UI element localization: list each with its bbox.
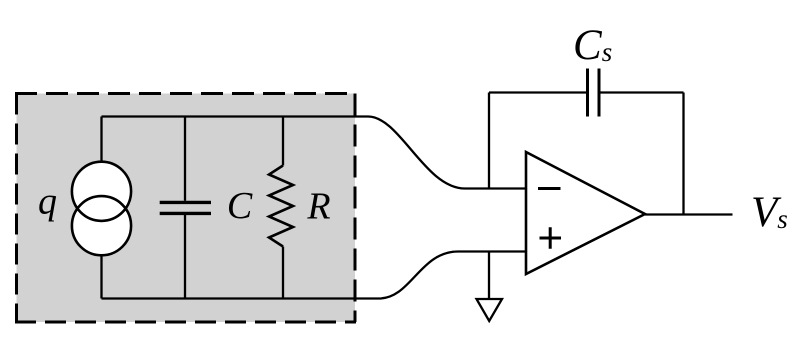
wire feedback right leg (682, 93, 684, 215)
ground (477, 252, 503, 322)
capacitor Cs (588, 69, 600, 117)
op-amp U1 (526, 152, 645, 274)
wire feedback top right (599, 91, 684, 93)
wire feedback left leg (488, 93, 490, 189)
svg-text:Vs: Vs (751, 189, 788, 236)
svg-text:Cs: Cs (573, 22, 612, 69)
svg-text:R: R (306, 186, 330, 228)
capacitor C (160, 117, 211, 299)
svg-text:C: C (227, 185, 253, 227)
resistor R (269, 117, 293, 299)
wire output (645, 213, 733, 215)
dashed sensor box (15, 94, 356, 323)
wire bottom rail (102, 297, 380, 299)
wire to non-inverting input (379, 252, 526, 299)
current source q (72, 117, 131, 299)
svg-text:q: q (38, 181, 57, 223)
wire to inverting input (368, 117, 526, 189)
wire feedback top left (489, 91, 588, 93)
wire top rail (102, 115, 369, 117)
